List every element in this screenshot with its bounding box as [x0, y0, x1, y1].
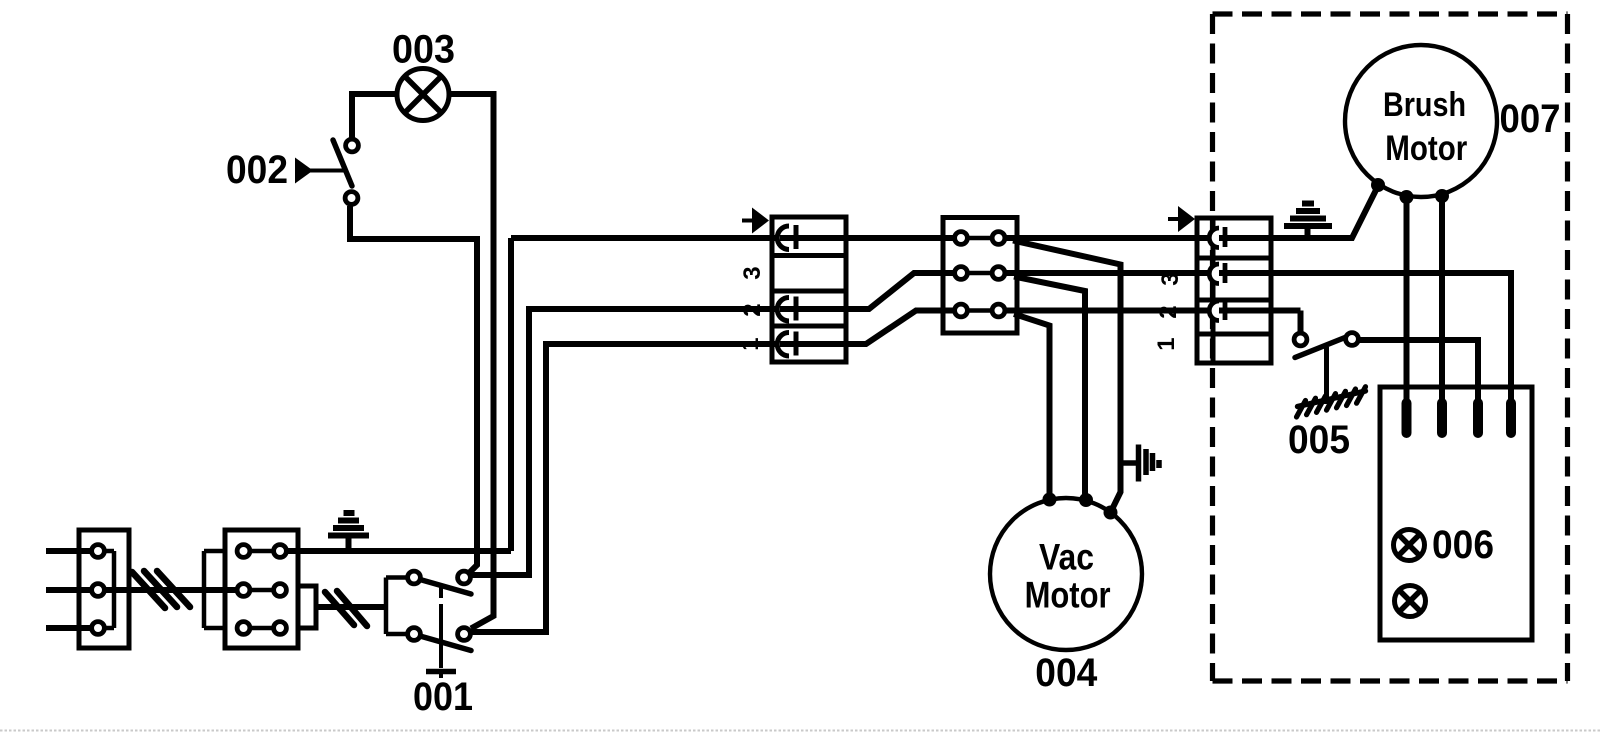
page artifact line [0, 730, 1600, 732]
svg-text:3: 3 [1157, 272, 1184, 285]
wire J2 row links [955, 238, 1004, 311]
svg-text:Motor: Motor [1385, 129, 1467, 168]
cord break slash marks 2 [325, 591, 367, 626]
connector J1 contact hooks [777, 225, 796, 356]
wire J1 row3 through block [780, 341, 846, 347]
terminal block TB1 output stub box [298, 586, 316, 628]
wire switch 005 to lamp board [1358, 340, 1478, 400]
wire J2 row1 to connector J3 [1004, 235, 1352, 241]
ground G3 (inside unit 007) [1284, 204, 1332, 239]
cord break slash marks 1 [132, 571, 190, 608]
brush motor 007 body [1345, 45, 1497, 197]
wire lamp 003 to switch 001 bottom-right contact [450, 94, 494, 629]
connector J1 orientation arrow [742, 208, 769, 234]
switch 001 link [439, 585, 443, 668]
wire J3 row3 to switch 005 [1298, 311, 1304, 335]
switch 005 terminals [1294, 333, 1358, 346]
wire J2 row2 to connector J3 and lamp board [1004, 273, 1511, 400]
connector J1 body [772, 217, 846, 362]
connector J3 body [1197, 218, 1271, 363]
wire switch 002 feed (from 001 top-right contact) [350, 206, 477, 572]
wire J1 to J2 row1 [846, 235, 961, 241]
terminal block TB1 body [225, 530, 298, 648]
wire row1 main run to connector J1 [511, 235, 790, 241]
ground G1 (above terminal block) [328, 513, 369, 552]
wire J1 row2 through block [780, 306, 846, 312]
lamp 006b [1395, 586, 1426, 617]
connector J2 pins [955, 232, 1005, 317]
wire J2 row3 branch to vac motor [1014, 314, 1050, 496]
wire brush motor to lamp board pin 1 [1404, 197, 1410, 420]
switch 001 (double-pole) [386, 571, 471, 678]
switch 001 terminals [408, 571, 471, 640]
svg-text:002: 002 [226, 148, 288, 192]
svg-text:003: 003 [392, 28, 455, 72]
svg-text:Vac: Vac [1039, 537, 1094, 578]
vac motor 004 terminal dots [1043, 493, 1118, 520]
connector J2 body [943, 218, 1017, 334]
wire J2 row2 branch to vac motor [1014, 277, 1085, 498]
lamp board 006 pins [1402, 398, 1517, 438]
wire TB1 row1 to node bus [287, 548, 511, 554]
switch 001 blade top [420, 580, 471, 595]
terminal block TB1 (6-way) shell [204, 551, 225, 628]
switch 002 blade [333, 140, 352, 186]
wire mains feed middle row [46, 587, 91, 593]
switch 001 actuator bar [426, 669, 456, 675]
svg-text:Motor: Motor [1025, 575, 1111, 616]
wire J3 row1 to brush motor [1271, 186, 1378, 238]
switch 005 blade [1295, 338, 1345, 358]
switch 001 blade bottom [420, 636, 471, 651]
connector J3 contact hooks [1209, 227, 1225, 321]
svg-text:001: 001 [413, 675, 473, 719]
svg-text:3: 3 [739, 266, 766, 279]
wire J1 to J2 row2 (diagonal rise) [846, 273, 961, 309]
wire brush motor to lamp board pin 2 [1439, 196, 1445, 420]
lamp board 006 body [1380, 387, 1532, 640]
wire TB1 output to switch 001 [316, 604, 386, 610]
wire row3 run (001 bottom contact to J1) [471, 344, 790, 632]
lamp 003 [397, 69, 449, 121]
vac motor 004 body [990, 498, 1142, 650]
svg-text:Brush: Brush [1383, 86, 1466, 124]
svg-text:006: 006 [1432, 523, 1494, 567]
wire mains feed bottom row [46, 625, 91, 631]
wire J2 row3 to connector J3 [1004, 308, 1301, 314]
wire row2 run (001 top contact to J1) [470, 309, 790, 575]
wire switch 002 to lamp 003 [352, 94, 396, 139]
svg-text:1: 1 [737, 337, 764, 350]
svg-text:005: 005 [1288, 418, 1350, 462]
lamp 006a [1394, 530, 1425, 561]
svg-text:004: 004 [1035, 651, 1098, 695]
chassis ground G4 (switch 005) [1297, 387, 1366, 417]
wire J1 to J2 row3 (diagonal rise) [846, 311, 961, 345]
switch 001 left bracket [386, 578, 407, 635]
terminal block TB1 pins [237, 545, 286, 635]
svg-text:007: 007 [1500, 97, 1561, 141]
ground G2 (vac motor, rotated) [1121, 445, 1159, 482]
wire mains feed L top row into plug [46, 548, 91, 554]
wire J1 row1 through block [780, 235, 846, 241]
svg-text:2: 2 [739, 303, 766, 316]
terminal block TB1 row links [236, 551, 287, 628]
switch 002 actuator arrow [295, 158, 344, 184]
wire node bus vertical (mains L riser) [508, 238, 514, 551]
dashed enclosure (unit 007 boundary) [1213, 14, 1568, 681]
connector plug P1 (3-pin wall plug) [79, 530, 129, 648]
switch 002 terminals [345, 139, 358, 204]
svg-text:1: 1 [1153, 337, 1180, 350]
switch 005 [1294, 333, 1358, 404]
svg-text:2: 2 [1155, 305, 1182, 318]
wire plug to terminal block (cord) [105, 587, 236, 593]
connector J3 orientation arrow [1168, 206, 1195, 232]
brush motor 007 terminal dots [1371, 178, 1449, 204]
switch 005 link [1324, 347, 1329, 404]
wire J2 row1 branch to vac motor [1013, 241, 1121, 513]
